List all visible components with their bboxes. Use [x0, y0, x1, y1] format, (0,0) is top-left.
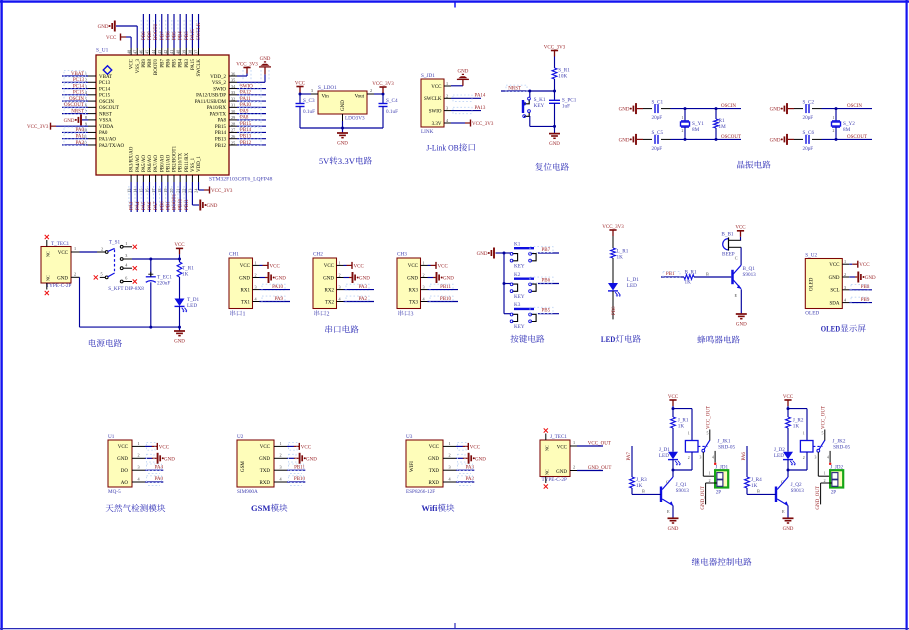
svg-text:VSSA: VSSA: [99, 119, 112, 124]
svg-text:1: 1: [255, 260, 257, 265]
svg-text:PB4: PB4: [179, 31, 184, 40]
CH3 pin4 TX3: [421, 301, 428, 303]
wire GND_OUT: [706, 482, 717, 484]
power VCC: [456, 445, 463, 447]
svg-text:LED: LED: [774, 453, 784, 459]
svg-text:RX2: RX2: [325, 288, 335, 293]
svg-text:PC15: PC15: [73, 91, 85, 96]
CH1 pin4 TX1: [253, 301, 260, 303]
TEC1 pin1: [71, 251, 80, 253]
svg-text:GND: GND: [668, 527, 679, 532]
svg-text:NRST: NRST: [508, 86, 521, 91]
module U2 SIM900A: [237, 440, 274, 487]
svg-text:2: 2: [339, 273, 341, 278]
U3 pin4 RXD: [443, 481, 456, 483]
transistor J_Q1 S9013: [662, 477, 673, 490]
wire net PA15: [191, 14, 193, 48]
U2 pin2 GND: [274, 457, 287, 459]
ground: [260, 277, 266, 279]
svg-text:PA3: PA3: [466, 465, 475, 470]
svg-text:PB1/AO: PB1/AO: [166, 154, 171, 172]
wire emitter: [672, 506, 674, 519]
svg-text:PB5: PB5: [542, 309, 551, 314]
svg-text:GND: GND: [865, 276, 876, 281]
OLED pin3 SCL: [842, 289, 849, 291]
MCU bottom pin 24 VDD_1: [198, 175, 200, 182]
svg-text:RX3: RX3: [409, 288, 419, 293]
svg-text:OSCIN: OSCIN: [721, 104, 736, 109]
wire net PA12: [237, 94, 266, 96]
svg-text:S_U1: S_U1: [96, 48, 109, 54]
svg-text:2: 2: [446, 93, 448, 98]
svg-text:SWIO: SWIO: [429, 109, 442, 114]
LDO pin2: [367, 93, 374, 95]
svg-text:SRD-05: SRD-05: [833, 445, 850, 451]
svg-text:PA6: PA6: [742, 452, 747, 461]
svg-text:PA4: PA4: [155, 465, 164, 470]
resistor J_R1 1K: [671, 417, 676, 428]
MCU bottom pin 18 PB0/AO: [161, 175, 163, 182]
MCU top pin 37 SWCLK: [198, 48, 200, 55]
power VCC top: [176, 247, 183, 249]
svg-text:S_U2: S_U2: [805, 253, 817, 259]
MCU right pin 25 PB12: [229, 144, 237, 146]
svg-text:GND: GND: [477, 252, 488, 257]
svg-text:2: 2: [280, 453, 282, 458]
svg-text:PB0: PB0: [612, 306, 617, 315]
JD1 pin 1 VCC: [444, 85, 451, 87]
switch right pin4: [120, 267, 123, 270]
svg-text:1: 1: [423, 260, 425, 265]
wire: [787, 428, 789, 452]
svg-text:VCC: VCC: [859, 263, 870, 268]
svg-text:PA2: PA2: [466, 477, 475, 482]
svg-text:GND_OUT: GND_OUT: [816, 486, 821, 510]
OLED pin1 VCC: [842, 263, 849, 265]
svg-text:PB12: PB12: [215, 144, 227, 149]
wire net PB4: [179, 14, 181, 48]
svg-text:GND: GND: [174, 340, 185, 345]
svg-text:20pF: 20pF: [803, 115, 814, 121]
wire split: [673, 408, 692, 410]
capacitor S_C5 20pF: [637, 138, 643, 140]
svg-text:VCC: VCC: [174, 243, 185, 248]
svg-text:PA0: PA0: [99, 131, 108, 136]
svg-text:29: 29: [231, 115, 235, 120]
svg-text:GND: GND: [98, 25, 109, 30]
svg-text:PB10: PB10: [179, 198, 184, 210]
svg-text:1M: 1M: [719, 124, 727, 130]
wire: [612, 258, 614, 283]
svg-text:PA11/USB/DM: PA11/USB/DM: [195, 100, 227, 105]
svg-text:3: 3: [280, 465, 282, 470]
wire gnd bus: [503, 253, 505, 314]
svg-text:SDA: SDA: [829, 301, 839, 306]
svg-text:3: 3: [700, 456, 702, 460]
svg-text:25: 25: [231, 140, 235, 145]
svg-text:PB13: PB13: [215, 138, 227, 143]
power VCC_3V3 VDD_2: [237, 75, 247, 77]
svg-text:1: 1: [339, 260, 341, 265]
svg-text:OSCOUT: OSCOUT: [847, 135, 867, 140]
MCU left pin 3 PC14: [88, 88, 96, 90]
svg-text:27: 27: [231, 128, 235, 133]
wire net PA10: [260, 289, 291, 291]
power VCC: [669, 399, 676, 401]
svg-text:VCC_3V3: VCC_3V3: [236, 62, 258, 67]
connector CH2 serial header: [313, 258, 337, 309]
ground VSSA pin8: [82, 119, 88, 121]
wire net VBAT: [62, 75, 88, 77]
svg-text:PB0: PB0: [160, 201, 165, 210]
svg-text:20pF: 20pF: [803, 146, 814, 152]
svg-text:5: 5: [707, 432, 709, 436]
svg-text:U1: U1: [108, 434, 115, 440]
OLED pin4 SDA: [842, 302, 849, 304]
svg-text:VCC: VCC: [470, 445, 481, 450]
MCU left pin 11 PA1/AO: [88, 138, 96, 140]
svg-text:OSCIN: OSCIN: [69, 97, 84, 102]
svg-text:20pF: 20pF: [652, 115, 663, 121]
svg-text:PA10: PA10: [272, 285, 283, 290]
svg-text:LED: LED: [601, 334, 615, 344]
svg-text:C: C: [735, 256, 738, 261]
caption gas module: [106, 504, 166, 512]
wire net PA9: [237, 113, 266, 115]
power VCC: [145, 445, 152, 447]
svg-text:PA7: PA7: [627, 452, 632, 461]
svg-text:PB9: PB9: [142, 59, 147, 68]
connector J_JD1 2P terminal: [715, 470, 728, 487]
svg-text:PA6: PA6: [148, 201, 153, 210]
switch right pin6: [120, 280, 123, 283]
svg-text:LED: LED: [627, 283, 637, 289]
OLED display connector S_U2: [805, 259, 842, 309]
svg-text:PC13: PC13: [73, 78, 85, 83]
svg-text:4: 4: [827, 456, 829, 460]
svg-text:U3: U3: [406, 434, 413, 440]
svg-text:GND: GND: [275, 277, 286, 282]
svg-text:TX3: TX3: [409, 300, 419, 305]
svg-text:VDD_1: VDD_1: [197, 156, 202, 172]
wire net PA13: [451, 110, 481, 112]
svg-text:26: 26: [231, 134, 235, 139]
svg-text:VCC: VCC: [295, 81, 306, 86]
svg-text:J_JK2: J_JK2: [833, 438, 846, 444]
switch right pin3: [120, 258, 123, 261]
svg-text:GND: GND: [359, 277, 370, 282]
wire net PB8: [148, 14, 150, 48]
svg-text:35: 35: [231, 78, 235, 83]
svg-text:1: 1: [844, 259, 846, 264]
svg-text:4: 4: [712, 456, 714, 460]
svg-text:1K: 1K: [678, 424, 685, 430]
svg-text:S9013: S9013: [743, 272, 757, 278]
svg-text:SIM900A: SIM900A: [237, 489, 258, 495]
svg-text:GND: GND: [457, 69, 468, 74]
svg-text:20pF: 20pF: [652, 146, 663, 152]
wire net PB9: [849, 302, 872, 304]
svg-text:GND: GND: [259, 457, 270, 462]
svg-text:PB8: PB8: [148, 59, 153, 68]
svg-text:SWIO: SWIO: [240, 84, 253, 89]
svg-text:OLED: OLED: [810, 277, 815, 291]
svg-text:GND: GND: [619, 108, 630, 113]
MCU right pin 34 SWIO: [229, 88, 237, 90]
wire net PA14: [451, 97, 481, 99]
MCU right pin 32 PA11/USB/DM: [229, 100, 237, 102]
power VCC: [287, 445, 294, 447]
svg-text:PB11: PB11: [185, 199, 190, 210]
ground LDO: [342, 128, 344, 133]
svg-text:BEEP: BEEP: [722, 251, 735, 257]
svg-text:S_LDO1: S_LDO1: [318, 85, 337, 91]
wire net PC13: [62, 81, 88, 83]
power VCC: [784, 399, 791, 401]
svg-text:OSCIN: OSCIN: [99, 100, 114, 105]
resistor R1 1M: [715, 109, 717, 119]
CH2 pin2 GND: [337, 277, 344, 279]
svg-text:K1: K1: [514, 242, 521, 248]
svg-text:GND: GND: [770, 138, 781, 143]
svg-text:CH2: CH2: [313, 252, 323, 258]
TEC pin2 GND_OUT: [570, 470, 577, 472]
svg-text:KEY: KEY: [534, 103, 545, 109]
svg-text:S9013: S9013: [791, 488, 805, 494]
transistor J_Q2 S9013: [777, 477, 788, 490]
svg-text:VDD_2: VDD_2: [210, 75, 226, 80]
svg-text:LED: LED: [659, 453, 669, 459]
CH2 pin1 VCC: [337, 264, 344, 266]
MCU right pin 28 PB15: [229, 125, 237, 127]
svg-text:2: 2: [101, 246, 103, 251]
svg-text:2: 2: [449, 453, 451, 458]
svg-text:5: 5: [822, 432, 824, 436]
svg-text:6: 6: [125, 276, 127, 281]
svg-text:VCC: VCC: [668, 395, 679, 400]
wire net PC14: [62, 88, 88, 90]
ground: [145, 457, 152, 459]
caption relay control circuit: [692, 558, 752, 566]
wire net PB1: [167, 182, 169, 212]
svg-text:PB5: PB5: [173, 31, 178, 40]
ground: [554, 126, 556, 133]
wire emitter: [740, 289, 742, 314]
connector CH3 serial header: [397, 258, 421, 309]
wire: [672, 428, 674, 452]
svg-text:PA2: PA2: [359, 297, 368, 302]
no-connect top: [545, 434, 547, 441]
svg-text:PB10/TX: PB10/TX: [179, 152, 184, 172]
module U1 MQ-5: [108, 440, 132, 487]
CH2 pin3 RX2: [337, 289, 344, 291]
svg-text:PC13: PC13: [99, 81, 111, 86]
caption key circuit: [510, 335, 544, 343]
svg-text:VCC: VCC: [260, 445, 271, 450]
CH3 pin1 VCC: [421, 264, 428, 266]
svg-text:PA12/USB/DP: PA12/USB/DP: [196, 94, 226, 99]
ground VSS_2: [237, 81, 265, 83]
wire net PB3: [185, 14, 187, 48]
U3 pin2 GND: [443, 457, 456, 459]
svg-text:PB13: PB13: [240, 135, 252, 140]
wire NRST: [501, 90, 555, 92]
svg-text:SCL: SCL: [830, 289, 839, 294]
svg-text:PA4: PA4: [136, 201, 141, 210]
svg-text:PA2/TX/AO: PA2/TX/AO: [99, 144, 124, 149]
svg-text:VBAT: VBAT: [99, 75, 112, 80]
svg-text:40: 40: [175, 50, 180, 54]
wire bottom rail: [80, 326, 180, 328]
MCU right pin 35 VSS_2: [229, 81, 237, 83]
svg-text:31: 31: [231, 103, 235, 108]
power VCC: [260, 264, 263, 266]
svg-text:2: 2: [423, 273, 425, 278]
svg-text:GND: GND: [207, 204, 218, 209]
MCU bottom pin 14 PA4/AO: [136, 175, 138, 182]
wire net PB11: [185, 182, 187, 212]
wire net PB11: [287, 469, 305, 471]
svg-text:VCC: VCC: [270, 264, 281, 269]
svg-text:3: 3: [255, 285, 257, 290]
svg-text:GND: GND: [619, 138, 630, 143]
svg-text:VCC_3V3: VCC_3V3: [472, 122, 494, 127]
svg-text:E: E: [667, 509, 670, 514]
relay coil: [691, 409, 693, 441]
svg-text:PA1/AO: PA1/AO: [99, 138, 116, 143]
wire net PB6: [167, 14, 169, 48]
OLED pin2 GND: [842, 276, 849, 278]
svg-text:PA8: PA8: [240, 116, 249, 121]
resistor J_R3 1K: [745, 477, 750, 488]
wire net PB8: [849, 289, 872, 291]
svg-text:T_S1: T_S1: [109, 240, 121, 246]
transistor B_Q1 S9013: [731, 270, 734, 284]
svg-text:37: 37: [194, 50, 199, 54]
svg-text:VCC: VCC: [324, 264, 335, 269]
wire net PA1: [62, 138, 88, 140]
wire to node: [822, 108, 873, 110]
MCU left pin 1 VBAT: [88, 75, 96, 77]
U3 pin3 TXD: [443, 469, 456, 471]
CH1 pin1 VCC: [253, 264, 260, 266]
capacitor S_C4 0.1uF: [382, 94, 384, 103]
MCU right pin 31 PA10/RX: [229, 106, 237, 108]
MCU right pin 29 PA8: [229, 119, 237, 121]
svg-text:VCC: VCC: [408, 264, 419, 269]
pushbutton S_K1 KEY: [529, 91, 531, 97]
svg-text:38: 38: [188, 50, 193, 54]
svg-text:45: 45: [145, 50, 150, 54]
svg-text:K2: K2: [514, 272, 521, 278]
svg-text:1: 1: [125, 241, 127, 246]
wire to node: [671, 108, 742, 110]
svg-text:2: 2: [709, 479, 711, 483]
svg-text:PB3: PB3: [185, 31, 190, 40]
svg-text:PA11: PA11: [240, 97, 251, 102]
svg-text:PB6: PB6: [166, 31, 171, 40]
MCU left pin 7 NRST: [88, 113, 96, 115]
svg-text:MQ-5: MQ-5: [108, 489, 121, 495]
TEC1 pin2: [71, 276, 80, 278]
power VCC_3V3 to VDDA pin9: [56, 125, 88, 127]
svg-text:1: 1: [709, 471, 711, 475]
MCU right pin 36 VDD_2: [229, 75, 237, 77]
svg-text:B: B: [642, 489, 645, 494]
svg-text:2P: 2P: [716, 490, 722, 496]
svg-text:PA4/AO: PA4/AO: [136, 155, 141, 172]
U2 pin4 RXD: [274, 481, 287, 483]
MCU left pin 8 VSSA: [88, 119, 96, 121]
svg-text:NC: NC: [545, 445, 550, 451]
no-connect bottom: [545, 477, 547, 484]
wire net PA5: [142, 182, 144, 212]
svg-text:VDDA: VDDA: [99, 125, 114, 130]
svg-text:10K: 10K: [558, 74, 567, 80]
svg-text:GND: GND: [443, 277, 454, 282]
wire net PA4: [136, 182, 138, 212]
svg-text:1: 1: [280, 441, 282, 446]
svg-text:STM32F103C8T6_LQFP48: STM32F103C8T6_LQFP48: [209, 177, 273, 183]
svg-text:3.3V: 3.3V: [432, 122, 442, 127]
U2 pin1 VCC: [274, 445, 287, 447]
wire net PB0: [612, 291, 614, 320]
svg-text:Vout: Vout: [355, 95, 365, 100]
power VCC to top pin 48: [126, 36, 131, 38]
svg-text:42: 42: [163, 50, 168, 54]
wire collector: [740, 247, 742, 265]
wire net PA2: [344, 301, 375, 303]
svg-text:NC: NC: [46, 251, 51, 257]
svg-text:S_JD1: S_JD1: [421, 73, 435, 79]
wire net PA8: [237, 119, 266, 121]
svg-text:2: 2: [833, 129, 835, 133]
svg-text:1K: 1K: [617, 255, 624, 261]
svg-text:U2: U2: [237, 434, 244, 440]
svg-text:T_TEC1: T_TEC1: [51, 241, 70, 247]
wire net PB11: [428, 289, 459, 291]
wire net SWIO: [237, 88, 266, 90]
svg-text:B_B1: B_B1: [721, 231, 734, 237]
svg-text:PC14: PC14: [73, 84, 85, 89]
regulator LDO1 LDO3V3 body: [318, 91, 367, 114]
ground JD1 pin1: [451, 85, 463, 87]
JD1 pin 3 SWIO: [444, 110, 451, 112]
wire net PB0: [161, 182, 163, 212]
wire net PA2: [456, 481, 474, 483]
wire net PA3: [130, 182, 132, 212]
svg-text:NRST: NRST: [99, 112, 112, 117]
wire net PA3: [456, 469, 474, 471]
svg-text:PB14: PB14: [240, 128, 252, 133]
svg-text:1: 1: [138, 441, 140, 446]
wire net OSCOUT: [62, 106, 88, 108]
svg-text:2P: 2P: [831, 490, 837, 496]
JD1 pin 2 SWCLK: [444, 97, 451, 99]
svg-text:GND: GND: [556, 470, 567, 475]
LED J_Q2led: [783, 452, 793, 460]
wire to base: [631, 488, 633, 494]
svg-text:C: C: [666, 480, 669, 485]
wire to node: [822, 138, 873, 140]
wire vout: [374, 93, 383, 95]
svg-text:VCC: VCC: [735, 226, 746, 231]
TEC pin1 VCC_OUT: [570, 445, 577, 447]
svg-text:0.1uF: 0.1uF: [303, 109, 315, 115]
svg-text:3: 3: [449, 465, 451, 470]
svg-text:8M: 8M: [692, 127, 700, 133]
svg-text:GND: GND: [428, 457, 439, 462]
